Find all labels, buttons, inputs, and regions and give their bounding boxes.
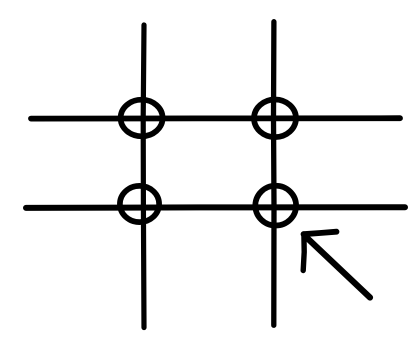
wire: horizontal bus 2 (bottom) — [26, 204, 405, 211]
wire: vertical bus 2 (right) — [271, 22, 277, 326]
wire: horizontal bus 1 (top) — [31, 115, 400, 121]
junction circle: node B (top-right crossing) — [254, 100, 296, 138]
arrow shaft (pointing at node D) — [305, 236, 370, 298]
arrowhead left barb — [303, 234, 304, 271]
junction circle: node A (top-left crossing) — [121, 100, 163, 137]
wire: vertical bus 1 (left) — [141, 25, 147, 328]
junction circle: node C (bottom-left crossing) — [120, 186, 159, 222]
junction circle: node D (bottom-right crossing, pointed at by arrow) — [255, 186, 296, 226]
arrowhead top barb — [304, 232, 337, 235]
